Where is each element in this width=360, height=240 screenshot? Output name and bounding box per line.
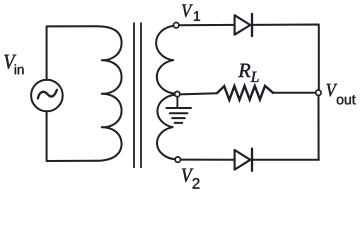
- ground: [176, 97, 178, 108]
- label Vin: [4, 55, 23, 74]
- wire: [47, 111, 96, 161]
- wire: [252, 159, 319, 161]
- wire: [47, 26, 96, 80]
- ac source Vin: [31, 80, 63, 112]
- label V1: [182, 4, 200, 20]
- terminal V1: [174, 23, 179, 28]
- label V2: [182, 169, 200, 189]
- wire: [273, 92, 316, 94]
- transformer secondary L2: [156, 26, 174, 61]
- label Vout: [327, 84, 356, 105]
- center tap node: [175, 92, 180, 97]
- wire: [179, 24, 235, 26]
- wire: [181, 159, 235, 161]
- transformer primary L1: [96, 26, 122, 161]
- resistor RL: [217, 86, 273, 100]
- wire: [252, 25, 319, 90]
- wire: [318, 95, 320, 159]
- terminal V2: [175, 157, 180, 162]
- diode D2: [235, 150, 251, 170]
- label RL: [238, 64, 259, 82]
- diode D1: [235, 15, 251, 35]
- wire: [180, 93, 217, 94]
- transformer core: [133, 23, 135, 167]
- node Vout: [316, 90, 321, 95]
